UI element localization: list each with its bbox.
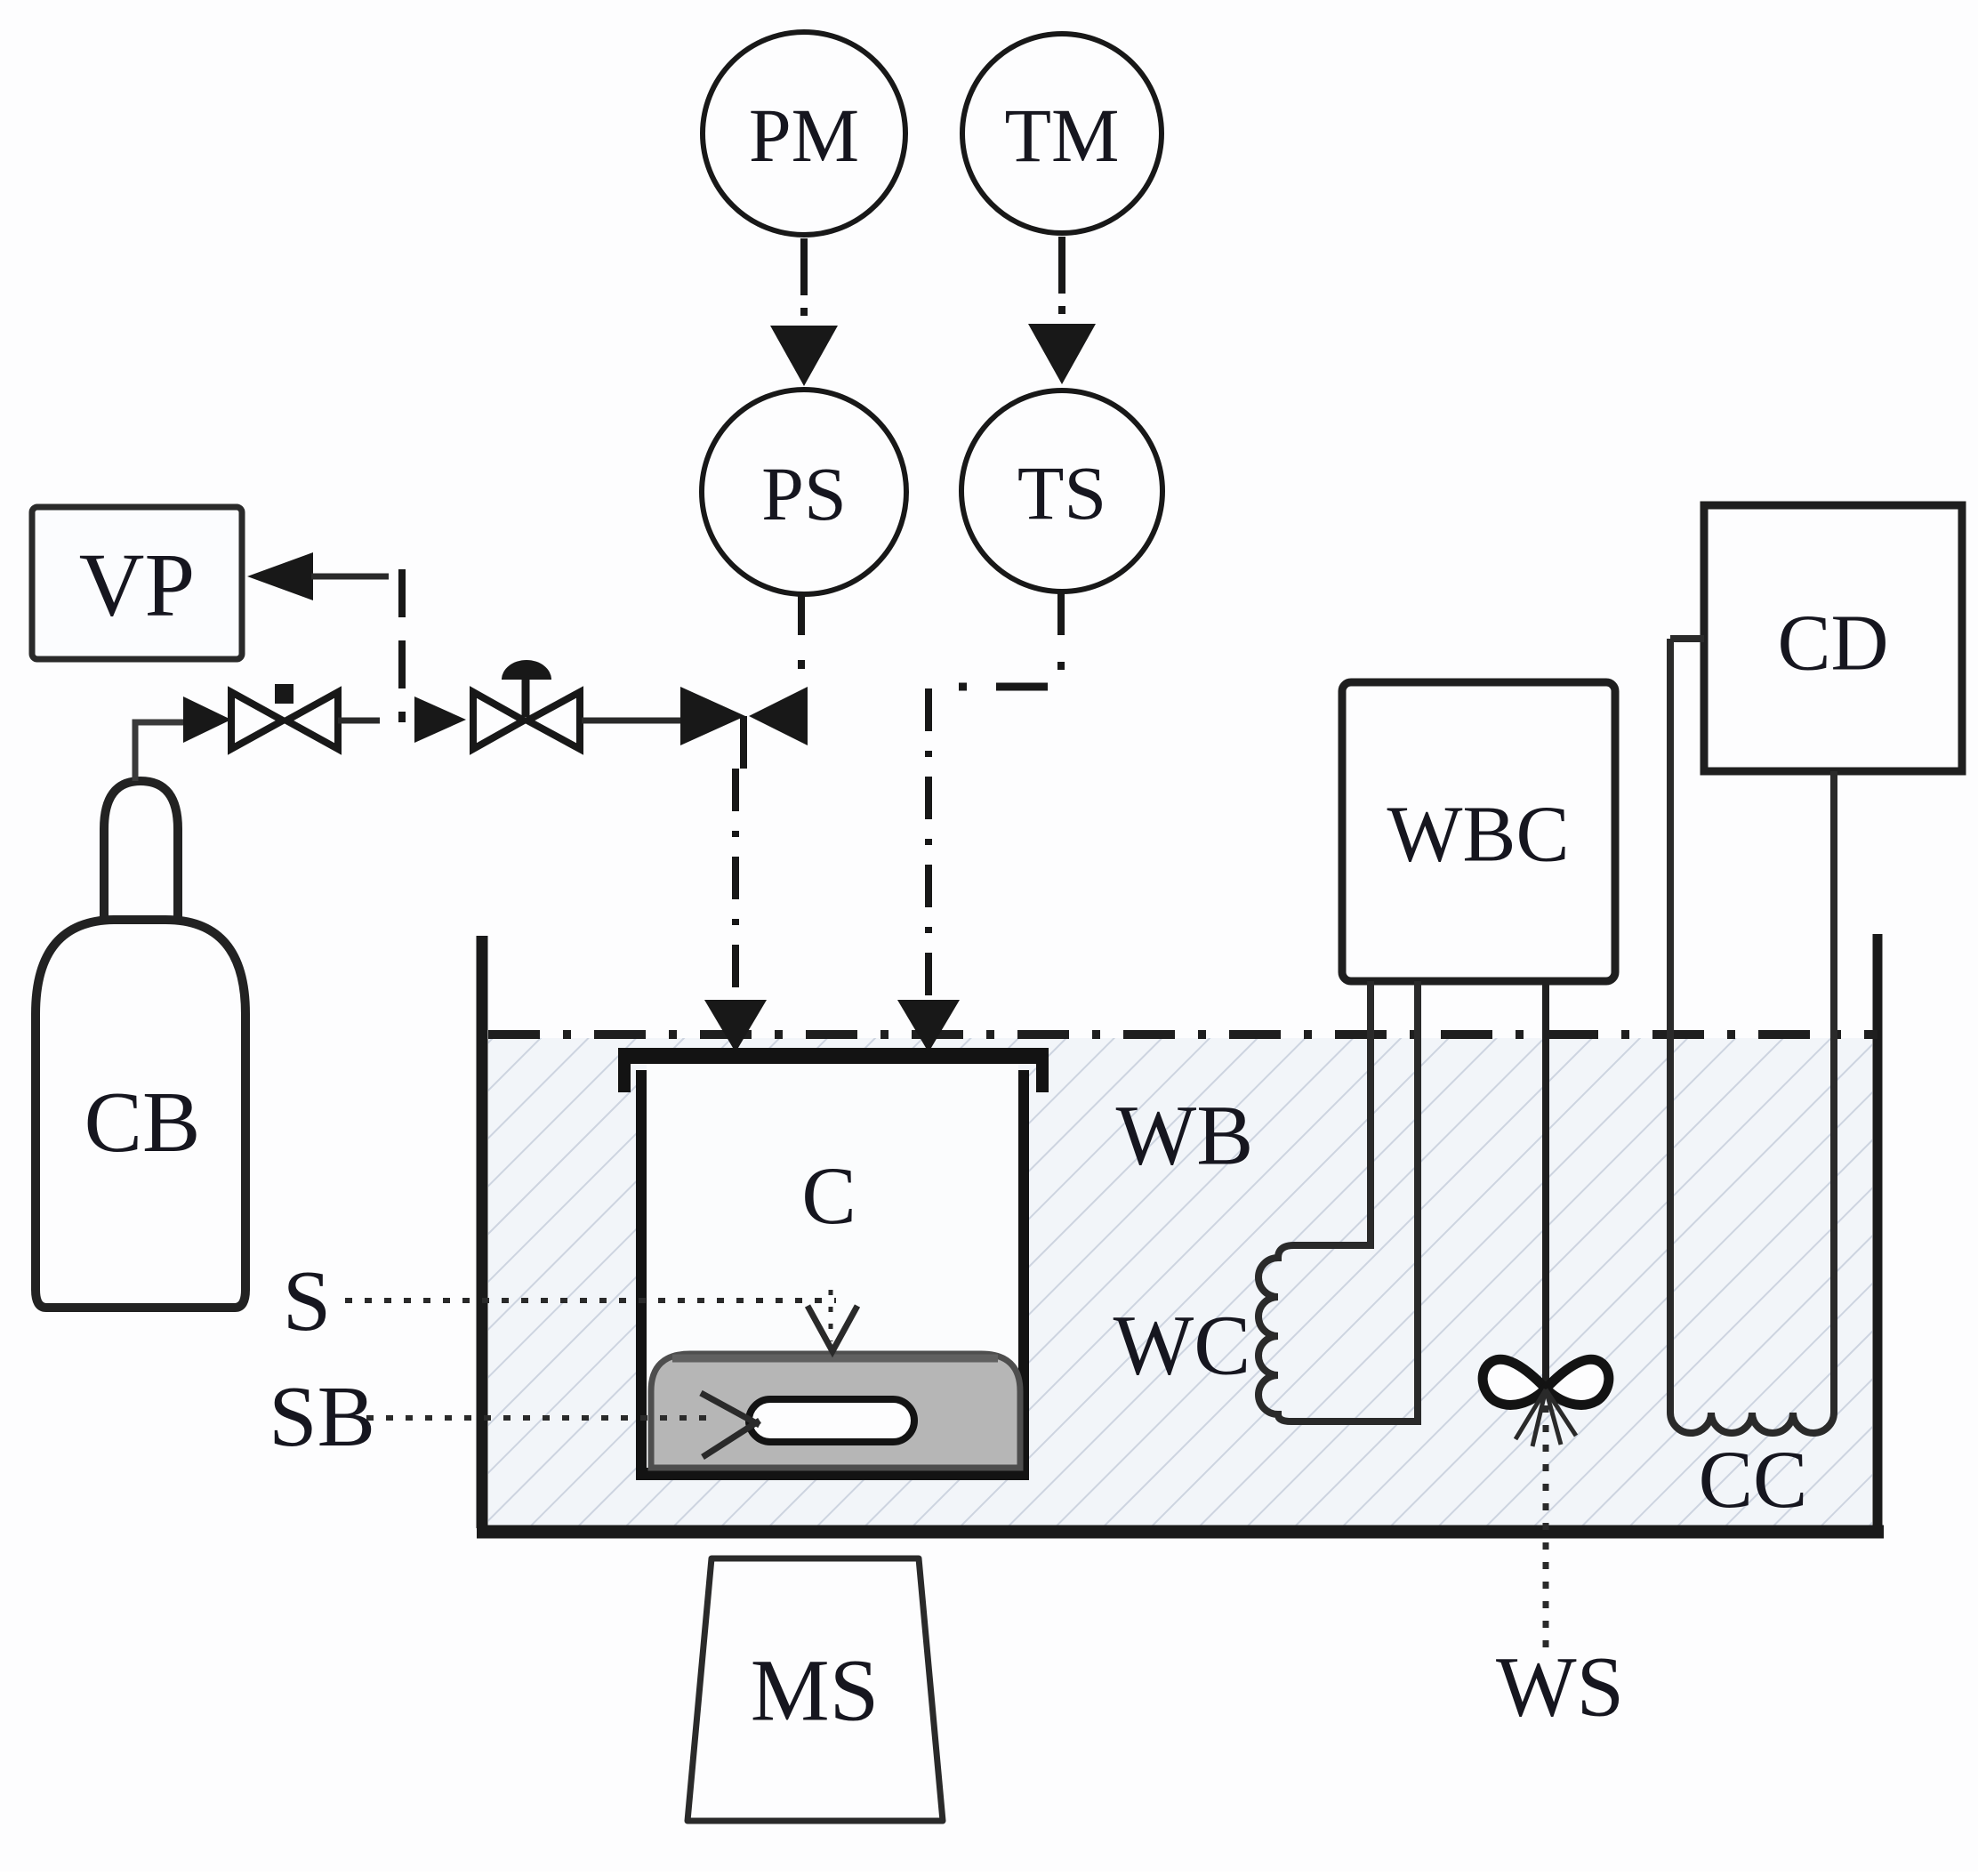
svg-text:WBC: WBC (1387, 791, 1569, 879)
TM to TS connector arrow (1058, 237, 1065, 294)
pressure sensor PS (702, 390, 906, 594)
TS down line with dog-leg (1057, 592, 1065, 635)
stirrer shaft WS (1542, 981, 1549, 1384)
sample hydrate S gray block (651, 1354, 1020, 1468)
cell C left wall (636, 1070, 647, 1477)
water bath WB hatched fill (488, 1038, 1872, 1526)
WS dotted line (1543, 1405, 1549, 1653)
dashed vacuum branch line (398, 569, 406, 722)
valve V3 solid bowtie junction (680, 687, 745, 745)
valve V2 bowtie with handle (473, 692, 524, 749)
cold trap / condenser CD box (1704, 505, 1962, 771)
svg-text:VP: VP (79, 535, 195, 636)
water surface dash-dot line (488, 1030, 1877, 1039)
propeller whiskers (1516, 1389, 1546, 1439)
heating coil loop WC (1258, 981, 1418, 1421)
svg-text:CB: CB (84, 1075, 201, 1171)
valve V1 bowtie (231, 692, 283, 749)
vacuum pump VP box (32, 507, 242, 659)
SB pointer arrow (701, 1393, 760, 1425)
svg-text:CC: CC (1699, 1434, 1808, 1525)
wire V1 to tee (338, 718, 380, 724)
water bath bottom (477, 1526, 1884, 1539)
svg-text:C: C (801, 1150, 856, 1241)
stir bar SB (749, 1399, 914, 1442)
water bath controller WBC box (1342, 682, 1615, 981)
svg-text:WC: WC (1114, 1298, 1251, 1393)
SB dotted pointer line (366, 1415, 707, 1421)
magnetic stirrer MS (687, 1558, 943, 1821)
wire to VP arrow (311, 574, 389, 580)
PM to PS connector arrow (800, 238, 808, 295)
water bath right wall (1873, 934, 1883, 1528)
arrow into VP (247, 552, 313, 600)
wire from CB to main gas line (135, 722, 183, 781)
cell C right wall (1018, 1070, 1029, 1477)
flow arrow 1 (183, 696, 231, 743)
stirrer propeller (1483, 1359, 1546, 1405)
S dotted pointer line (345, 1298, 836, 1303)
svg-text:CD: CD (1777, 600, 1888, 688)
temperature meter TM (962, 34, 1162, 233)
svg-text:PM: PM (749, 93, 859, 178)
cooling coil tube CC (1670, 639, 1834, 1433)
water bath left wall (477, 936, 488, 1528)
CD connector (1670, 635, 1704, 642)
cell C bottom (636, 1468, 1029, 1480)
svg-text:SB: SB (269, 1369, 375, 1465)
svg-text:S: S (283, 1253, 332, 1349)
dash-dot signal line PS branch down to cell (732, 769, 739, 1000)
cell C interior (647, 1064, 1018, 1475)
pressure meter PM (703, 32, 905, 235)
gas cylinder bottle CB body (36, 920, 245, 1308)
svg-text:WS: WS (1496, 1639, 1624, 1735)
svg-text:PS: PS (761, 451, 847, 536)
svg-text:MS: MS (751, 1641, 880, 1740)
svg-text:TM: TM (1005, 93, 1120, 178)
dash-dot signal line TS branch down to cell (925, 688, 932, 1000)
wire V2 to V3 (582, 718, 681, 724)
flow arrow 2 (414, 696, 466, 743)
svg-text:TS: TS (1017, 450, 1106, 535)
cell C lid with end hooks (618, 1048, 1049, 1092)
gas cylinder bottle CB neck (104, 781, 178, 920)
temperature sensor TS (961, 390, 1162, 592)
svg-text:WB: WB (1116, 1088, 1254, 1183)
S pointer arrow (829, 1290, 833, 1341)
PS down line to valve junction (798, 596, 805, 635)
